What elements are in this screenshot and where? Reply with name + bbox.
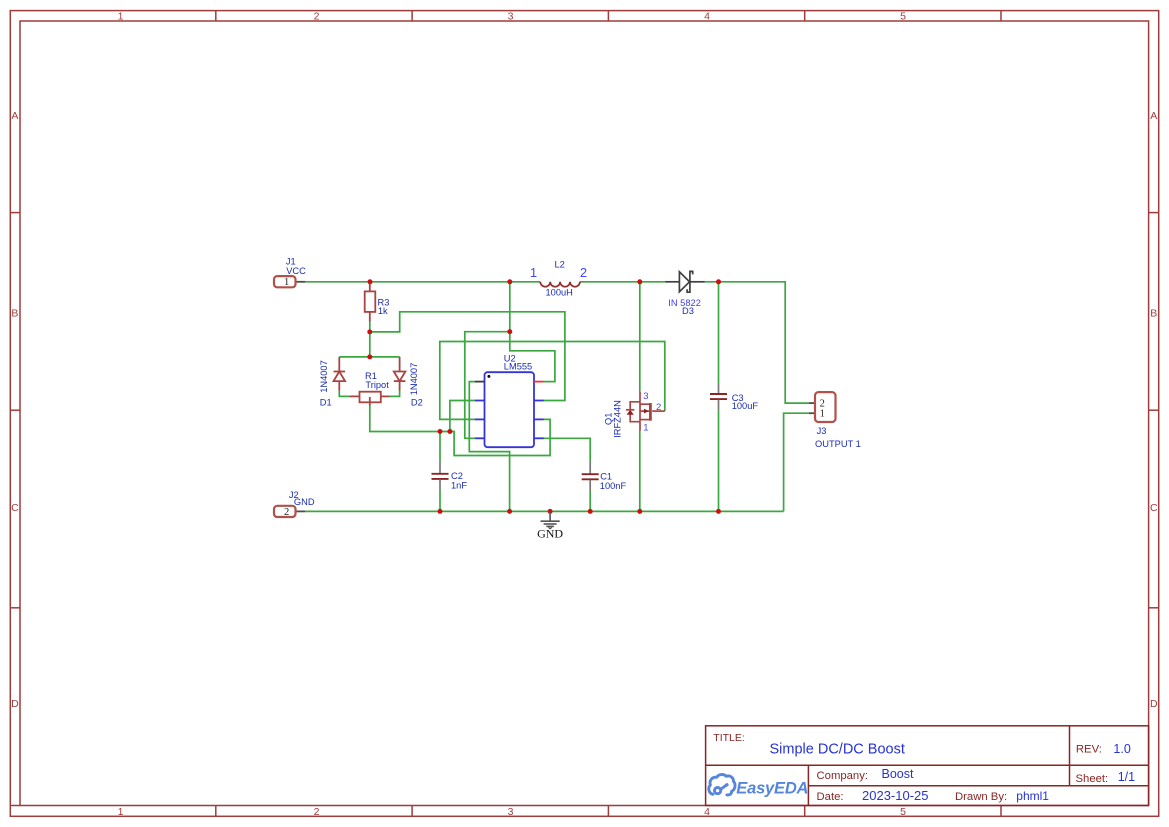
svg-text:Sheet:: Sheet: [1076, 773, 1109, 785]
svg-text:VCC: VCC [286, 266, 306, 276]
tick top 5 [1000, 11, 1002, 21]
svg-text:1: 1 [530, 265, 537, 280]
svg-text:C1: C1 [600, 471, 612, 481]
svg-text:D3: D3 [682, 306, 694, 316]
wire C2 bottom to rail [439, 491, 441, 512]
node trig/thr [447, 429, 452, 434]
tick top 2 [411, 11, 413, 21]
svg-text:1: 1 [284, 277, 289, 288]
divider under title row [706, 764, 1149, 766]
wire C3 bottom to rail [718, 410, 720, 511]
divider right column [1069, 726, 1071, 786]
tick right C/D [1149, 607, 1159, 609]
svg-text:Tripot: Tripot [365, 380, 389, 390]
svg-text:3: 3 [508, 10, 514, 22]
inner bottom extension to outer left [10, 805, 20, 807]
capacitor C3 [710, 384, 727, 411]
op-amp U2 body (LM555) [475, 372, 544, 447]
diode D1 [334, 357, 346, 391]
divider logo cell [807, 765, 809, 805]
connector J3 [809, 392, 836, 422]
svg-text:100nF: 100nF [600, 481, 627, 491]
wire C1 bottom to rail [589, 491, 591, 511]
svg-text:Company:: Company: [817, 770, 869, 782]
svg-text:GND: GND [537, 527, 563, 541]
connector J2 [274, 506, 305, 518]
junction dots [367, 279, 721, 514]
svg-text:EasyEDA: EasyEDA [736, 780, 808, 798]
node rail C2 [438, 509, 443, 514]
node top center [507, 279, 512, 284]
wire U2 left pin1 to gnd rail [469, 382, 509, 512]
capacitor C2 [432, 462, 449, 491]
svg-text:1/1: 1/1 [1118, 770, 1135, 784]
svg-text:5: 5 [900, 10, 906, 22]
svg-text:2: 2 [314, 806, 320, 818]
channel stubs [640, 403, 649, 405]
node D1/D2 top [367, 354, 372, 359]
svg-text:phml1: phml1 [1016, 789, 1049, 803]
EasyEDA logo [709, 774, 808, 797]
left pin 4 [475, 437, 485, 439]
tick bottom 1 [215, 806, 217, 817]
gate lead [652, 410, 665, 412]
tick right A/B [1149, 212, 1159, 214]
node rail cv [507, 509, 512, 514]
right pin 4 [534, 437, 544, 439]
svg-text:4: 4 [704, 10, 710, 22]
wire D1 bottom to R1 [339, 391, 349, 397]
left branch with body diode [630, 402, 640, 422]
svg-text:5: 5 [900, 806, 906, 818]
svg-text:2023-10-25: 2023-10-25 [862, 788, 929, 803]
tick right B/C [1149, 409, 1159, 411]
wire bottom GND rail [305, 510, 784, 512]
wires [305, 282, 809, 512]
title block outline [706, 726, 1149, 806]
svg-text:J3: J3 [817, 426, 827, 436]
gate bar [649, 403, 652, 421]
svg-text:D: D [11, 698, 19, 710]
svg-text:B: B [1150, 308, 1157, 320]
left pin 3 [475, 418, 485, 420]
svg-text:GND: GND [294, 497, 315, 507]
node rail Q1 [637, 509, 642, 514]
svg-text:Drawn By:: Drawn By: [955, 791, 1007, 803]
source lead [639, 422, 641, 431]
diode D3 schottky [665, 271, 705, 292]
svg-text:LM555: LM555 [504, 362, 532, 372]
tick bottom 5 [1000, 806, 1002, 817]
tick bottom 2 [411, 806, 413, 817]
node top C3 [716, 279, 721, 284]
node rail gnd flag [548, 509, 553, 514]
svg-text:1: 1 [643, 423, 648, 434]
tick bottom 4 [804, 806, 806, 817]
resistor R3 [365, 283, 376, 322]
node J1/R3 [368, 279, 373, 284]
node vcc mid [507, 329, 512, 334]
tick left C/D [10, 607, 20, 609]
node C2 top [438, 429, 443, 434]
wire top rail to Q1 drain [639, 282, 641, 392]
svg-text:A: A [11, 110, 18, 122]
wire J3 pin1 down to rail [784, 413, 809, 511]
tick left B/C [10, 409, 20, 411]
wire top rail to C3 top [718, 282, 720, 384]
tick top 3 [607, 11, 609, 21]
wire U2 left pin3 to Q1 gate net [440, 342, 665, 420]
tick top 4 [804, 11, 806, 21]
svg-text:1: 1 [118, 10, 124, 22]
trimmer R1 [349, 392, 389, 406]
ground symbol [541, 511, 560, 528]
wire center drop from top rail [509, 282, 511, 332]
wire top rail mid [580, 281, 665, 283]
svg-text:B: B [11, 308, 18, 320]
divider under company/sheet row [808, 785, 1148, 787]
svg-text:D2: D2 [411, 398, 423, 408]
svg-text:100uF: 100uF [732, 401, 759, 411]
node rail C3 [716, 509, 721, 514]
left pin 2 [475, 400, 485, 402]
svg-text:2: 2 [314, 10, 320, 22]
wire D1 D2 top [339, 356, 399, 358]
svg-text:2: 2 [284, 507, 289, 518]
svg-text:Date:: Date: [817, 791, 844, 803]
right pin 1 [534, 381, 544, 383]
tick left A/B [10, 212, 20, 214]
svg-text:C: C [11, 502, 19, 514]
svg-text:1: 1 [820, 409, 825, 420]
wire U2 left pin4 to vcc node [465, 332, 510, 439]
svg-text:OUTPUT 1: OUTPUT 1 [815, 439, 861, 449]
svg-text:3: 3 [508, 806, 514, 818]
inductor L2 [540, 282, 580, 287]
svg-text:Boost: Boost [882, 767, 914, 781]
drain lead [639, 392, 641, 402]
svg-text:2: 2 [656, 402, 661, 413]
wire Q1 source to rail [639, 431, 641, 512]
node rail C1 [588, 509, 593, 514]
svg-text:1k: 1k [378, 306, 388, 316]
right pin 3 [534, 418, 544, 420]
connector J1 [274, 276, 305, 288]
tick top 1 [215, 11, 217, 21]
svg-text:1.0: 1.0 [1113, 742, 1130, 756]
svg-text:C: C [1150, 502, 1158, 514]
svg-text:2: 2 [580, 265, 587, 280]
node top Q1 [637, 279, 642, 284]
wire top rail left [305, 281, 540, 283]
svg-text:IRFZ44N: IRFZ44N [613, 400, 623, 438]
main bar [639, 402, 641, 422]
svg-text:A: A [1150, 110, 1157, 122]
svg-text:1N4007: 1N4007 [409, 363, 419, 396]
wire U2 right pin4 to C1 top [544, 438, 590, 462]
body diode bar and arrow of Q1 [627, 409, 649, 415]
svg-text:1N4007: 1N4007 [319, 360, 329, 393]
tick bottom 3 [607, 806, 609, 817]
wire R3 bottom to D1/D2 top [369, 322, 371, 357]
wire C2 top [439, 432, 441, 462]
svg-text:Simple DC/DC Boost: Simple DC/DC Boost [770, 741, 905, 757]
wire D2 bottom to R1 [390, 391, 400, 397]
capacitor C1 [582, 462, 599, 491]
svg-text:D: D [1150, 698, 1158, 710]
svg-text:4: 4 [704, 806, 710, 818]
wire R3 node to U2 right pin2 [370, 312, 565, 401]
right pin 2 [534, 400, 544, 402]
left pin 1 [475, 381, 485, 383]
wire R1 wiper to node row to U2 right pin3 loop [370, 406, 550, 456]
svg-text:3: 3 [643, 391, 648, 402]
svg-text:1nF: 1nF [451, 480, 467, 490]
diode D2 [394, 357, 406, 391]
node R3 bottom [367, 329, 372, 334]
svg-text:TITLE:: TITLE: [713, 732, 745, 744]
svg-text:D1: D1 [320, 398, 332, 408]
svg-text:REV:: REV: [1076, 744, 1102, 756]
svg-text:L2: L2 [555, 259, 565, 269]
wire vcc node to U2 right pin1 [510, 332, 555, 382]
svg-text:100uH: 100uH [546, 287, 573, 297]
wire top rail right to J3 pin2 [705, 282, 809, 403]
wire U2 left pin2 to node [450, 401, 475, 432]
svg-text:1: 1 [118, 806, 124, 818]
transistor Q1 IRFZ44N [630, 392, 665, 431]
